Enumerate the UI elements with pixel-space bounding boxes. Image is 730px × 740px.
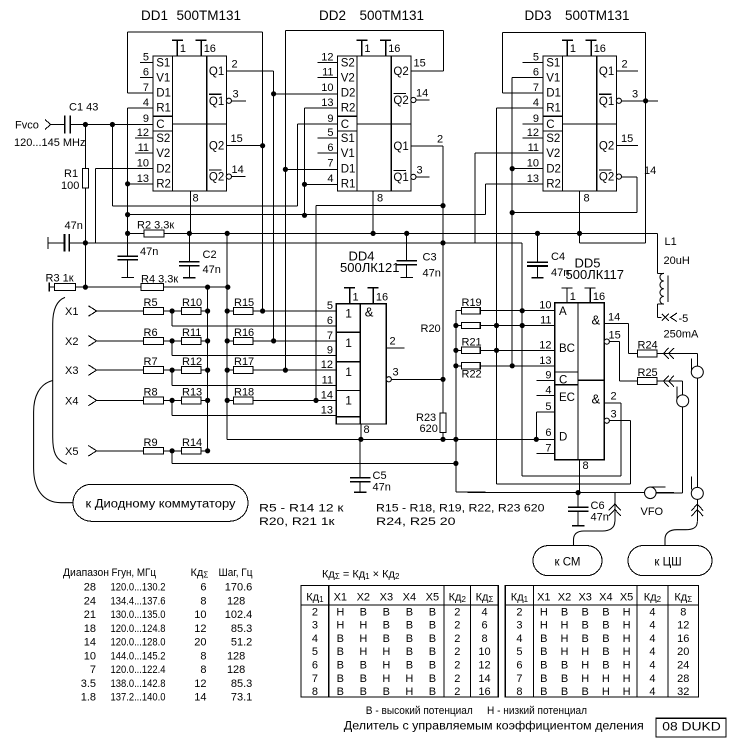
label C3	[423, 252, 441, 280]
svg-text:В: В	[360, 660, 367, 672]
label L1	[664, 236, 690, 267]
svg-text:В: В	[561, 660, 568, 672]
node junction rail227 X1	[225, 308, 230, 313]
svg-text:5: 5	[312, 646, 318, 658]
svg-text:R22: R22	[462, 369, 482, 381]
node junction pin11 R1net	[494, 323, 499, 328]
svg-text:8: 8	[680, 606, 686, 618]
svg-text:9: 9	[143, 113, 149, 125]
node junction rail227 X2	[225, 338, 230, 343]
svg-text:X5: X5	[620, 592, 633, 604]
node junction R2 bus left	[125, 231, 130, 236]
svg-text:Q1: Q1	[209, 66, 224, 78]
svg-text:12: 12	[137, 127, 149, 139]
wire R25 out	[657, 380, 683, 382]
resistor R19	[461, 308, 480, 314]
capacitor 47n input left	[48, 234, 69, 252]
svg-text:47n: 47n	[373, 482, 391, 494]
svg-text:9: 9	[545, 370, 551, 382]
svg-text:В: В	[429, 660, 436, 672]
wire link205 down	[315, 206, 317, 401]
wire to CSh branch	[696, 499, 698, 521]
svg-text:В: В	[337, 673, 344, 685]
svg-text:C6: C6	[591, 500, 605, 512]
svg-text:В: В	[429, 606, 436, 618]
svg-text:4: 4	[649, 606, 655, 618]
svg-text:7: 7	[516, 673, 522, 685]
svg-text:Q2: Q2	[393, 95, 408, 107]
svg-text:S2: S2	[546, 133, 560, 145]
svg-text:В: В	[429, 633, 436, 645]
wire X tap elbow	[172, 370, 336, 385]
svg-text:28: 28	[677, 673, 689, 685]
svg-text:2: 2	[312, 606, 318, 618]
svg-text:144.0...145.2: 144.0...145.2	[111, 650, 166, 662]
wire link Q2bar	[512, 212, 637, 214]
svg-text:Н: Н	[602, 686, 610, 698]
svg-text:2: 2	[454, 660, 460, 672]
svg-text:В: В	[561, 606, 568, 618]
inverted output bubble DD2 pin14	[411, 97, 416, 102]
coax chevrons R25	[664, 376, 674, 387]
resistor R14	[181, 447, 201, 454]
wire junction to R4	[85, 286, 141, 288]
node junction DD2 pin8	[371, 231, 376, 236]
svg-text:R16: R16	[234, 327, 254, 339]
svg-text:6: 6	[143, 67, 149, 79]
node junction X5 tap	[170, 448, 175, 453]
svg-text:C: C	[546, 119, 554, 131]
wire DD3 loop bottom	[580, 242, 646, 244]
svg-text:Fгун, МГц: Fгун, МГц	[112, 567, 157, 579]
wire rail to R16	[227, 340, 234, 342]
node junction rail227 R4bus	[225, 285, 230, 290]
svg-text:R3 1к: R3 1к	[46, 273, 74, 285]
svg-text:128: 128	[227, 650, 245, 662]
svg-text:Н: Н	[382, 646, 390, 658]
svg-text:9: 9	[327, 113, 333, 125]
svg-text:S1: S1	[156, 57, 170, 69]
capacitor 47n DD1 resets	[117, 233, 138, 277]
svg-text:R24, R25 20: R24, R25 20	[376, 516, 456, 528]
svg-text:В: В	[582, 686, 589, 698]
svg-text:13: 13	[321, 97, 333, 109]
svg-text:4: 4	[649, 660, 655, 672]
brace X1-X5	[53, 297, 67, 464]
svg-text:12: 12	[194, 678, 206, 690]
label C5	[373, 470, 391, 494]
svg-text:Н: Н	[623, 646, 631, 658]
svg-text:R12: R12	[182, 356, 202, 368]
wire X1 to R5	[97, 310, 144, 312]
svg-text:7: 7	[90, 664, 96, 676]
svg-text:X4: X4	[65, 395, 78, 407]
wire R12 out	[201, 369, 208, 371]
svg-text:13: 13	[137, 173, 149, 185]
label C4	[551, 251, 569, 279]
node junction DD1 pin8 R2	[187, 231, 192, 236]
svg-text:В: В	[602, 646, 609, 658]
wire R6 out	[163, 340, 182, 342]
wire X3 to R7	[97, 369, 144, 371]
svg-text:5: 5	[533, 52, 539, 64]
svg-text:C1 43: C1 43	[69, 102, 98, 114]
input X3 arrow	[65, 365, 97, 377]
wire R25 down	[682, 381, 684, 493]
node junction DD2 D1	[283, 167, 288, 172]
node junction pin12 R1net	[494, 348, 499, 353]
svg-text:1.8: 1.8	[81, 692, 96, 704]
svg-text:C3: C3	[423, 252, 437, 264]
svg-text:2: 2	[516, 606, 522, 618]
wire clock up to DD2	[297, 124, 299, 206]
svg-text:R25: R25	[638, 367, 658, 379]
resistor R17	[233, 367, 253, 374]
svg-text:7: 7	[327, 330, 333, 342]
svg-text:32: 32	[677, 686, 689, 698]
svg-text:1: 1	[345, 306, 352, 320]
node junction X2 tap	[170, 338, 175, 343]
svg-text:6: 6	[312, 660, 318, 672]
svg-text:X3: X3	[65, 365, 78, 377]
svg-text:28: 28	[84, 582, 96, 594]
svg-text:8: 8	[200, 595, 206, 607]
inverted output bubble DD4 pin3	[386, 377, 391, 382]
wire rail to R17	[227, 369, 234, 371]
svg-text:X3: X3	[380, 592, 393, 604]
svg-text:5: 5	[327, 127, 333, 139]
node к СМ bubble	[533, 546, 602, 576]
node junction rail207 X5	[205, 448, 210, 453]
node junction DD3 Q1bar loop	[643, 98, 648, 103]
wire pin3 line	[497, 483, 631, 485]
svg-text:R14: R14	[182, 437, 202, 449]
svg-text:В: В	[337, 686, 344, 698]
svg-text:В: В	[383, 633, 390, 645]
svg-text:Н: Н	[382, 660, 390, 672]
wire DD2 Q1bar stub	[416, 176, 430, 178]
svg-text:10: 10	[539, 300, 551, 312]
svg-text:D: D	[559, 431, 567, 443]
svg-text:В: В	[429, 620, 436, 632]
svg-text:X3: X3	[578, 592, 591, 604]
input X1 arrow	[65, 306, 97, 318]
resistor R1 100	[82, 169, 88, 189]
svg-text:2: 2	[454, 620, 460, 632]
svg-text:Q1: Q1	[599, 96, 614, 108]
svg-text:R10: R10	[182, 297, 202, 309]
label R1	[61, 168, 79, 192]
svg-text:12: 12	[527, 127, 539, 139]
label legend	[366, 705, 587, 717]
svg-text:3.5: 3.5	[81, 678, 96, 690]
wire R15 to DD4	[253, 310, 337, 312]
node junction Q1 to R16 row	[271, 338, 276, 343]
svg-text:16: 16	[677, 633, 689, 645]
svg-text:В: В	[383, 620, 390, 632]
svg-text:12: 12	[321, 359, 333, 371]
inverted output bubble DD3 pin3	[616, 98, 621, 103]
node junction DD3 pin8	[577, 231, 582, 236]
svg-text:16: 16	[204, 43, 216, 55]
wire DD1 loop right down	[262, 32, 264, 311]
wire DD3 pin9 stub	[523, 123, 544, 125]
wire R17 to DD4	[253, 369, 337, 371]
svg-text:В: В	[360, 686, 367, 698]
svg-text:Шаг, Гц: Шаг, Гц	[219, 567, 254, 579]
svg-text:Н: Н	[405, 686, 413, 698]
svg-text:6: 6	[200, 582, 206, 594]
wire DD3 V2 pin11	[475, 152, 543, 154]
svg-text:6: 6	[327, 315, 333, 327]
svg-text:В: В	[337, 660, 344, 672]
svg-text:V1: V1	[546, 72, 560, 84]
wire DD1 pin11 stub	[135, 152, 153, 154]
wire Fvco to C1	[51, 124, 65, 126]
wire DD2 pin8 down	[372, 191, 374, 233]
node junction Fvco-clockbus	[110, 122, 115, 127]
resistor R12	[181, 367, 201, 374]
svg-text:В: В	[602, 633, 609, 645]
svg-text:5: 5	[327, 300, 333, 312]
svg-text:В: В	[582, 620, 589, 632]
coax chevrons SM	[609, 504, 621, 516]
svg-text:X5: X5	[65, 446, 78, 458]
svg-text:Н: Н	[336, 606, 344, 618]
svg-text:Н: Н	[623, 606, 631, 618]
svg-text:9: 9	[533, 113, 539, 125]
label C2	[203, 249, 221, 276]
IC DD1 500TM131 dual D flip-flop	[137, 40, 227, 191]
svg-text:R8: R8	[144, 386, 158, 398]
svg-text:R1: R1	[546, 103, 561, 115]
svg-text:-5: -5	[679, 313, 689, 325]
wire DD5 pin9 stub	[536, 380, 554, 382]
svg-text:В: В	[406, 620, 413, 632]
wire DD1 Q1 pin2	[227, 70, 274, 72]
wire DD1 loop left	[126, 32, 128, 93]
svg-text:R13: R13	[182, 386, 202, 398]
svg-text:8: 8	[583, 460, 589, 472]
svg-text:3: 3	[233, 89, 239, 101]
wire DD2 loop top	[285, 30, 443, 32]
resistor R6	[144, 338, 164, 345]
svg-text:R2: R2	[156, 179, 171, 191]
wire R5 out	[163, 310, 182, 312]
node junction Q1 to DD2 D2	[271, 91, 276, 96]
svg-text:3: 3	[417, 165, 423, 177]
resistor R15	[233, 308, 253, 315]
table truth Kd2=4	[505, 586, 698, 699]
svg-text:X1: X1	[334, 592, 347, 604]
svg-text:Н: Н	[359, 633, 367, 645]
svg-text:15: 15	[231, 133, 243, 145]
node junction rail Dbus	[453, 437, 458, 442]
svg-text:6: 6	[516, 660, 522, 672]
svg-text:X4: X4	[403, 592, 416, 604]
node junction DD4 pin8	[358, 437, 363, 442]
label C6	[591, 500, 609, 524]
svg-text:C5: C5	[373, 470, 387, 482]
svg-text:R21: R21	[462, 337, 482, 349]
svg-text:170.6: 170.6	[225, 582, 253, 594]
svg-text:Q1: Q1	[393, 172, 408, 184]
svg-text:7: 7	[143, 82, 149, 94]
svg-text:X2: X2	[65, 336, 78, 348]
wire clock to DD2 pin9 C	[298, 123, 338, 125]
svg-text:R4 3.3к: R4 3.3к	[141, 274, 178, 286]
wire DD2 pin5 stub	[317, 137, 337, 139]
svg-text:10: 10	[321, 82, 333, 94]
node junction DD2 resets to bus	[302, 213, 307, 218]
wire DD1 pin8 down	[190, 191, 192, 233]
capacitor C2 47n	[179, 233, 200, 277]
inverted output bubble DD1 pin14	[226, 174, 231, 179]
svg-text:47n: 47n	[140, 246, 158, 258]
svg-text:10: 10	[194, 609, 206, 621]
node junction Q1vert bus243	[440, 240, 445, 245]
wire rail to R18	[227, 399, 234, 401]
wire DD3 Q2bar pin14	[622, 176, 638, 178]
wire DD3 V1 D2 down	[511, 78, 513, 366]
wire DD4 pin8 down	[360, 424, 362, 439]
svg-text:47n: 47n	[591, 512, 609, 524]
node junction Q1 link205	[440, 203, 445, 208]
wire R9 out	[163, 450, 182, 452]
inverted output bubble DD3 pin14	[616, 174, 621, 179]
node junction R23 bottom	[440, 437, 445, 442]
wire R7 out	[163, 369, 182, 371]
wire DD5 pin3 stub	[609, 420, 630, 422]
inverted output bubble DD2 pin3	[411, 174, 416, 179]
resistor R3 1k	[49, 283, 75, 292]
connector circle A	[691, 359, 703, 379]
svg-text:R1: R1	[156, 103, 171, 115]
wire DD5 pin5 stub	[536, 412, 554, 439]
svg-text:В: В	[540, 633, 547, 645]
svg-text:R7: R7	[144, 356, 158, 368]
svg-text:3: 3	[312, 620, 318, 632]
wire DD3 R2 up	[485, 184, 487, 215]
svg-text:4: 4	[533, 97, 539, 109]
svg-text:Н: Н	[623, 673, 631, 685]
svg-text:8: 8	[193, 193, 199, 205]
svg-text:2: 2	[622, 59, 628, 71]
wire to R1	[84, 125, 86, 170]
svg-text:1: 1	[364, 43, 370, 55]
svg-text:V2: V2	[156, 148, 170, 160]
resistor R25	[638, 378, 657, 385]
wire DD1 R2 pin13	[128, 183, 153, 185]
svg-text:к СМ: к СМ	[555, 557, 581, 569]
wire X5 line	[172, 462, 456, 464]
svg-text:X1: X1	[537, 592, 550, 604]
label DD5 title	[566, 256, 625, 283]
svg-text:7: 7	[312, 673, 318, 685]
svg-text:5: 5	[545, 401, 551, 413]
wire DD3 loop right down	[645, 33, 647, 244]
wire DD1 D1	[127, 92, 153, 94]
node junction DD3 link 212	[510, 210, 515, 215]
svg-text:120.0...124.8: 120.0...124.8	[111, 623, 166, 635]
svg-text:100: 100	[61, 180, 79, 192]
svg-text:В: В	[429, 673, 436, 685]
svg-text:4: 4	[649, 673, 655, 685]
wire D bus	[227, 438, 554, 440]
svg-text:Н: Н	[540, 620, 548, 632]
wire DD5 pin4 stub	[536, 395, 554, 397]
node junction C3 top	[404, 231, 409, 236]
node junction X5 rail	[453, 461, 458, 466]
svg-text:Q2: Q2	[599, 141, 614, 153]
wire DD3 loop left	[501, 33, 503, 93]
wire X4 to R8	[97, 399, 144, 401]
svg-text:X2: X2	[558, 592, 571, 604]
DD4 output pin2 stub	[386, 347, 404, 349]
svg-text:12: 12	[677, 620, 689, 632]
node junction DD2 R1	[302, 182, 307, 187]
wire DD2 pin11 stub	[317, 77, 337, 79]
svg-text:10: 10	[137, 158, 149, 170]
wire Q2bar down	[636, 177, 638, 213]
wire curve to CSh	[665, 522, 697, 546]
coax chevrons CSh	[691, 504, 703, 516]
svg-text:500ЛК121: 500ЛК121	[340, 260, 399, 275]
svg-text:120.0...128.0: 120.0...128.0	[111, 637, 166, 649]
svg-text:128: 128	[227, 664, 245, 676]
wire DD2 Q1 down	[442, 146, 444, 413]
label R23 620	[416, 412, 438, 435]
svg-text:В: В	[383, 606, 390, 618]
svg-text:85.3: 85.3	[231, 623, 252, 635]
svg-text:VFO: VFO	[641, 506, 664, 518]
node junction R21 rail	[453, 348, 458, 353]
resistor R2 3.3k	[144, 230, 164, 237]
svg-text:В: В	[337, 633, 344, 645]
wire supply bus 243	[69, 242, 522, 244]
svg-text:Н: Н	[540, 606, 548, 618]
wire R8 out	[163, 399, 182, 401]
node junction R22 rail	[453, 363, 458, 368]
svg-text:5: 5	[143, 52, 149, 64]
wire DD3 D2 pin10	[512, 168, 543, 170]
svg-text:500ТМ131: 500ТМ131	[360, 8, 425, 23]
svg-text:R18: R18	[234, 386, 254, 398]
node junction rail207 X4	[205, 398, 210, 403]
wire pin2 down	[620, 403, 622, 476]
svg-text:В: В	[406, 606, 413, 618]
svg-text:В: В	[540, 660, 547, 672]
svg-text:X5: X5	[426, 592, 439, 604]
svg-text:DD2: DD2	[319, 8, 346, 23]
svg-text:Q2: Q2	[209, 172, 224, 184]
svg-text:Н: Н	[405, 673, 413, 685]
node junction reset bus left	[125, 212, 130, 217]
wire DD3 Q1 pin2 stub	[617, 70, 638, 72]
wire DD1 R1 pin4	[128, 107, 153, 109]
svg-text:R2: R2	[341, 103, 356, 115]
resistor R11	[181, 338, 201, 345]
wire to SM branch	[614, 493, 616, 522]
svg-text:120.0...122.4: 120.0...122.4	[111, 664, 166, 676]
resistor R23 620	[440, 413, 446, 433]
node junction rail227 X4	[225, 398, 230, 403]
svg-text:R5: R5	[144, 297, 158, 309]
svg-text:Н: Н	[581, 673, 589, 685]
svg-text:EC: EC	[559, 392, 575, 404]
svg-text:14: 14	[608, 312, 620, 324]
wire R23 bottom	[442, 433, 444, 440]
